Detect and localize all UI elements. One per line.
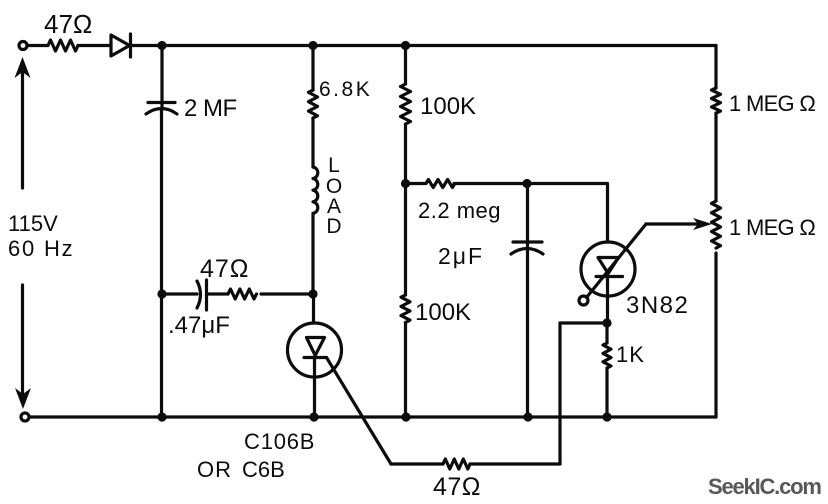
wire x405 bottom	[404, 323, 407, 418]
node dot x405	[401, 179, 410, 188]
resistor 100K upper	[401, 84, 411, 124]
wire right vertical top	[714, 46, 717, 89]
wire branch x162 upper	[160, 46, 163, 101]
node dot x607	[602, 318, 611, 327]
inductor LOAD	[313, 167, 318, 213]
input terminal top	[19, 42, 27, 50]
wire 2.2meg right	[454, 182, 607, 185]
node dot bottom D	[523, 412, 532, 421]
SCS 3N82 cathode wire	[606, 277, 609, 324]
wire resistor to diode	[78, 44, 111, 47]
wire x528 upper	[526, 184, 529, 241]
SCS 3N82 cathode bar	[596, 275, 623, 278]
wire x405 mid	[404, 124, 407, 295]
wire x313 mid	[311, 118, 314, 167]
node dot bottom E	[602, 412, 611, 421]
resistor 1K	[603, 343, 611, 368]
svg-text:1 MEG Ω: 1 MEG Ω	[729, 215, 815, 240]
SCR C106B cathode bar	[304, 356, 327, 359]
resistor 2.2meg	[426, 180, 455, 188]
AC source arrow up	[15, 57, 31, 78]
wire 3N82 anode	[606, 184, 609, 243]
node dot bottom C	[401, 412, 410, 421]
node dot top C	[401, 41, 410, 50]
AC source arrow down	[15, 388, 31, 409]
svg-text:OR: OR	[197, 457, 232, 482]
gate terminal circle 3N82	[579, 296, 588, 305]
wire 1K top	[605, 323, 608, 343]
resistor 47ohm gate	[443, 459, 470, 469]
AC source line lower	[21, 285, 24, 398]
capacitor .47uF	[197, 281, 201, 308]
node dot top A	[157, 41, 166, 50]
wire branch x162 lower	[160, 110, 163, 417]
svg-text:1K: 1K	[616, 342, 645, 367]
wire x313 node to SCR	[312, 294, 315, 323]
AC source line upper	[21, 66, 24, 188]
capacitor 2uF	[513, 240, 542, 243]
SCS 3N82 circle	[581, 242, 635, 296]
svg-text:2μF: 2μF	[438, 243, 484, 269]
svg-text:.47μF: .47μF	[168, 312, 230, 339]
svg-text:C6B: C6B	[242, 457, 285, 482]
svg-text:115V: 115V	[8, 211, 58, 236]
svg-text:SeekIC.com: SeekIC.com	[708, 474, 821, 499]
wire mid branch center	[207, 292, 229, 295]
wire mid branch right	[261, 292, 313, 295]
resistor 100K lower	[401, 295, 410, 323]
svg-text:47Ω: 47Ω	[44, 9, 92, 39]
svg-text:60 Hz: 60 Hz	[8, 236, 74, 261]
svg-text:6.8K: 6.8K	[319, 78, 372, 101]
wire gate horizontal left	[391, 462, 443, 465]
node dot x528	[522, 179, 531, 188]
svg-text:3N82: 3N82	[626, 292, 689, 319]
wire top main	[131, 44, 717, 47]
svg-text:100K: 100K	[420, 93, 476, 120]
SCR C106B circle	[288, 323, 342, 377]
wiper arrowhead	[693, 218, 712, 230]
wire 1K bottom	[605, 368, 608, 417]
wire gate horizontal right	[470, 462, 560, 465]
svg-text:2.2 meg: 2.2 meg	[418, 198, 501, 223]
svg-text:47Ω: 47Ω	[433, 473, 481, 501]
resistor 47ohm top	[48, 40, 78, 51]
wire top-left segment	[28, 44, 49, 47]
svg-text:L: L	[328, 154, 340, 177]
node dot x313 mid	[308, 289, 317, 298]
wire right vertical bottom	[714, 253, 717, 417]
svg-text:D: D	[326, 215, 341, 238]
svg-text:47Ω: 47Ω	[200, 255, 250, 283]
node dot x162 mid	[157, 289, 166, 298]
SCS 3N82 triangle	[598, 258, 619, 274]
potentiometer 1MEG	[712, 201, 721, 248]
wire x313 top to resistor	[311, 46, 314, 91]
svg-text:100K: 100K	[415, 299, 471, 326]
wire gate vertical up	[558, 323, 561, 464]
wire gate to 3N82 node	[560, 321, 607, 324]
node dot bottom B	[309, 412, 318, 421]
svg-text:C106B: C106B	[244, 429, 315, 454]
node dot top B	[308, 41, 317, 50]
wire 2.2meg left	[406, 182, 426, 185]
wire x405 top to resistor	[404, 46, 407, 85]
SCR C106B triangle	[307, 338, 325, 356]
wiper diagonal wire	[587, 224, 647, 298]
diode D1	[111, 35, 130, 56]
svg-text:2 MF: 2 MF	[184, 95, 237, 122]
svg-text:1 MEG Ω: 1 MEG Ω	[729, 91, 815, 116]
wire bottom main	[30, 415, 717, 418]
wire x313 to node	[311, 213, 314, 294]
wire mid branch left	[162, 292, 197, 295]
resistor 1MEG fixed	[712, 88, 721, 113]
SCR gate diagonal wire	[327, 358, 392, 465]
wiper horizontal wire	[646, 222, 701, 225]
resistor 47ohm mid	[228, 289, 257, 299]
input terminal bottom	[21, 413, 29, 421]
node dot bottom A	[157, 412, 166, 421]
capacitor 2MF	[148, 101, 175, 104]
resistor 6.8K	[309, 90, 318, 118]
wire right vertical mid	[714, 113, 717, 201]
wire x528 lower	[526, 250, 529, 417]
SCR C106B cathode wire	[313, 357, 316, 417]
